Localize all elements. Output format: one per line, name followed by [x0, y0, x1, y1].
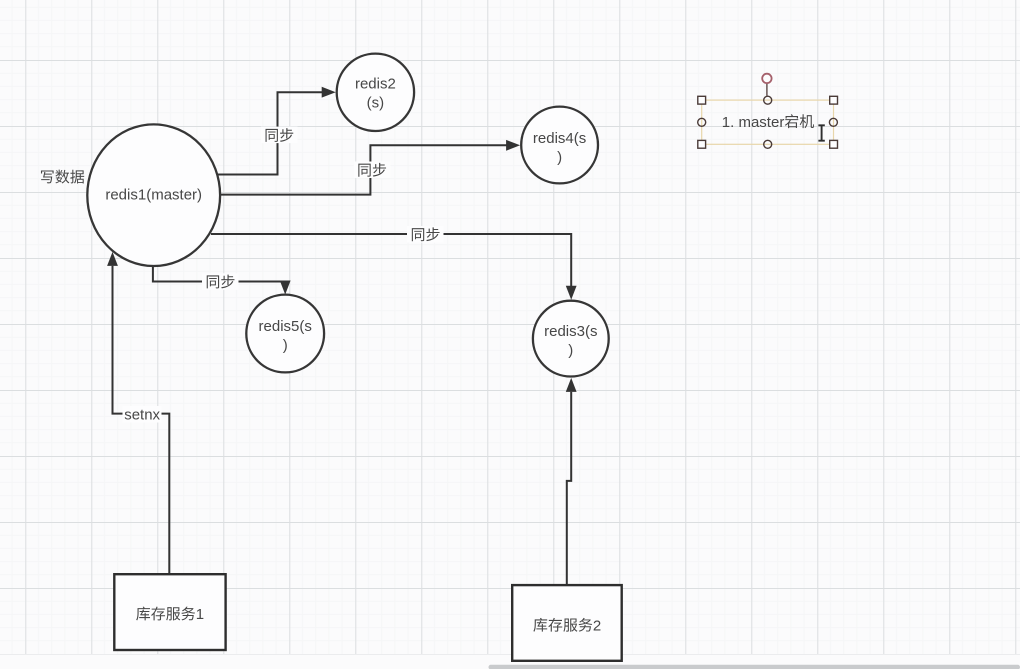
- selection handle circle bottom-center: [764, 140, 772, 148]
- wire 同步: redis1 to redis4: [220, 145, 507, 194]
- horizontal scrollbar: [489, 665, 1020, 669]
- node 库存服务1 box: [114, 574, 225, 650]
- text cursor I-beam: [818, 125, 824, 140]
- node 库存服务2 box: [512, 585, 622, 661]
- svg-text:): ): [557, 149, 562, 166]
- svg-text:redis4(s: redis4(s: [533, 130, 586, 147]
- label setnx: [123, 406, 162, 423]
- selection handle square bottom-left: [698, 140, 706, 148]
- svg-text:redis5(s: redis5(s: [259, 318, 312, 335]
- selection handle circle left-middle: [698, 118, 706, 126]
- svg-text:(s): (s): [367, 95, 385, 112]
- svg-text:1. master: 1. master: [722, 114, 785, 131]
- svg-text:2: 2: [593, 618, 601, 635]
- label 库存服务1: [136, 607, 150, 621]
- node redis4 circle: [521, 107, 598, 184]
- label 同步 (redis1→redis3): [407, 226, 444, 243]
- svg-text:1: 1: [196, 606, 204, 623]
- selection handle circle top-center: [764, 96, 772, 104]
- rotation handle stem: [766, 83, 768, 96]
- svg-text:redis2: redis2: [355, 76, 396, 93]
- selection handle square top-right: [830, 96, 838, 104]
- label 库存服务2: [533, 618, 547, 632]
- selection handle circle right-middle: [829, 118, 837, 126]
- wire 同步: redis1 to redis5: [153, 267, 285, 282]
- selection handle square top-left: [698, 96, 706, 104]
- svg-text:setnx: setnx: [124, 407, 160, 424]
- selection frame of text element: [702, 100, 834, 144]
- wire 同步: redis1 to redis3 (long): [211, 234, 571, 287]
- label 同步 (redis1→redis5): [202, 273, 239, 290]
- node redis2 circle: [337, 54, 414, 131]
- node redis3 circle: [533, 301, 609, 377]
- wire 同步: redis1 to redis2: [217, 92, 322, 174]
- rotation handle: [762, 74, 771, 83]
- svg-text:redis1(master): redis1(master): [105, 187, 202, 204]
- wire setnx: 库存服务1 to redis1: [113, 266, 170, 574]
- svg-text:): ): [568, 342, 573, 359]
- node redis1 (master) ellipse: [87, 124, 220, 266]
- node redis5 circle: [246, 295, 324, 373]
- wire: 库存服务2 to redis3: [567, 392, 571, 585]
- label 同步 (redis1→redis4): [354, 162, 391, 179]
- label 写数据: [41, 171, 54, 184]
- label 同步 (redis1→redis2): [261, 127, 298, 144]
- svg-text:redis3(s: redis3(s: [544, 323, 597, 340]
- svg-text:): ): [283, 337, 288, 354]
- selection handle square bottom-right: [830, 140, 838, 148]
